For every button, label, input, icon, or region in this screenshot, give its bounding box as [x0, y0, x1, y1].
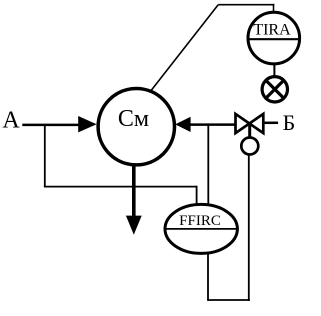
- instrument FFIRC divider line: [165, 228, 237, 230]
- wire: bottom horizontal signal line: [208, 299, 250, 301]
- wire: vertical signal line down to FFIRC top-left: [196, 186, 198, 205]
- wire: stem from TIRA to lamp: [273, 63, 275, 77]
- wire: stream A inlet line: [22, 124, 80, 127]
- arrowhead: mixer outlet down: [126, 216, 142, 235]
- svg-text:А: А: [2, 108, 20, 134]
- arrowhead: stream B into mixer: [175, 117, 190, 132]
- wire: signal from positioner down: [248, 154, 250, 301]
- instrument FFIRC ellipse: [165, 204, 237, 253]
- lamp symbol cross stroke 1: [266, 80, 284, 98]
- valve body left triangle: [236, 114, 250, 133]
- lamp symbol cross stroke 2: [266, 80, 284, 98]
- instrument TIRA divider line: [248, 38, 300, 40]
- svg-text:Б: Б: [283, 110, 296, 135]
- valve body right triangle: [249, 114, 263, 133]
- wire: top horizontal signal line: [218, 4, 274, 6]
- wire: stream B line from valve to mixer: [190, 123, 237, 126]
- valve positioner circle: [241, 138, 258, 155]
- mixer Cm circle: [98, 89, 174, 165]
- wire: branch from stream A down: [44, 125, 46, 187]
- arrowhead: stream A into mixer: [78, 116, 96, 132]
- wire: stream B line right of valve: [264, 122, 278, 125]
- wire: mixer outlet stem (thick): [132, 164, 136, 218]
- lamp symbol circle: [262, 77, 287, 102]
- svg-text:См: См: [118, 106, 149, 132]
- wire: horizontal signal line to FFIRC: [44, 186, 197, 188]
- wire: vertical signal up to FFIRC bottom: [207, 252, 209, 301]
- wire: valve stem down to positioner: [248, 124, 251, 141]
- svg-text:TIRA: TIRA: [253, 22, 291, 39]
- wire: diagonal signal from mixer to TIRA: [152, 5, 219, 90]
- instrument TIRA circle: [248, 12, 300, 64]
- wire: stub down into TIRA top: [273, 4, 275, 13]
- wire: branch from stream B down to FFIRC top-right: [207, 125, 209, 205]
- svg-text:FFIRC: FFIRC: [179, 213, 221, 229]
